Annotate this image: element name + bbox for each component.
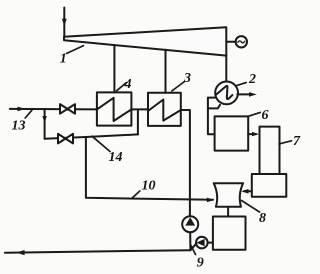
wire pump 9 jog xyxy=(190,244,196,251)
svg-text:2: 2 xyxy=(248,72,256,87)
leader label 13 xyxy=(25,110,32,118)
svg-text:4: 4 xyxy=(124,77,132,92)
wire heater 3 outlet down xyxy=(181,110,190,216)
wire basin to pump 9 xyxy=(208,242,213,244)
arrowhead base into tower xyxy=(241,189,248,194)
wire 6 to 7 xyxy=(248,133,256,135)
leader label 1 xyxy=(67,46,84,54)
arrowhead heater 2 outlet xyxy=(249,92,257,97)
wire bypass lower xyxy=(45,134,138,138)
wire pump P1 down xyxy=(189,232,191,250)
arrowhead line 10 into tower xyxy=(207,198,215,203)
svg-text:1: 1 xyxy=(60,52,67,67)
generator G xyxy=(236,36,247,47)
wire extraction to heater 3 xyxy=(165,50,167,93)
pump 9 triangle xyxy=(196,239,204,246)
pump P1 triangle xyxy=(185,217,195,225)
wire bottom return xyxy=(5,250,191,253)
arrowhead bottom return xyxy=(16,250,25,255)
box 6 xyxy=(215,116,249,150)
leader label 7 xyxy=(279,141,292,144)
svg-text:6: 6 xyxy=(262,108,269,123)
leader label 2 xyxy=(235,83,246,86)
wire feedwater inlet 13 xyxy=(10,108,97,111)
box 7 base xyxy=(252,174,286,197)
wire bypass riser xyxy=(137,109,139,134)
heater 3 zigzag xyxy=(148,100,181,121)
svg-text:3: 3 xyxy=(183,71,191,86)
svg-text:10: 10 xyxy=(142,179,156,194)
wire extraction to heater 4 xyxy=(113,45,115,92)
svg-text:13: 13 xyxy=(12,118,26,133)
arrowhead 6 to 7 xyxy=(252,132,259,136)
turbine T1 (wedge) xyxy=(64,27,226,55)
heater box 4 xyxy=(97,92,131,125)
arrowhead turbine inlet xyxy=(62,19,67,26)
wire tower to basin xyxy=(227,207,229,217)
wire turbine inlet xyxy=(63,8,65,38)
wire heater 2 outlet right xyxy=(237,93,252,95)
heater circle 2 xyxy=(215,82,238,105)
generator connection wire xyxy=(226,41,236,43)
heater 4 zigzag xyxy=(97,98,131,121)
leader label 9 xyxy=(191,246,196,255)
leader label 3 xyxy=(172,82,185,92)
leader label 14 xyxy=(92,136,110,151)
generator tilde xyxy=(238,41,245,43)
pump 9 circle xyxy=(196,237,208,249)
leader label 4 xyxy=(117,83,127,91)
leader label 8 xyxy=(242,201,260,213)
heater 2 zigzag xyxy=(216,86,232,99)
svg-text:14: 14 xyxy=(109,150,123,165)
valve V1 upper xyxy=(60,104,75,114)
wire turbine exhaust to heater 2 xyxy=(225,56,227,82)
leader label 6 xyxy=(249,112,261,116)
cooling tower 8 xyxy=(214,183,243,207)
arrowhead inlet 13 xyxy=(18,107,26,112)
svg-text:9: 9 xyxy=(197,256,204,271)
wire between heaters 4 and 3 xyxy=(131,108,148,110)
wire line 10 xyxy=(86,137,213,200)
wire heater 2 left hook xyxy=(208,98,215,135)
svg-text:7: 7 xyxy=(293,134,301,149)
wire branch down xyxy=(44,109,46,139)
box 7 tower xyxy=(260,127,280,174)
arrowhead branch down xyxy=(42,116,46,124)
heater box 3 xyxy=(148,93,181,126)
svg-text:8: 8 xyxy=(259,211,266,226)
pump P1 circle xyxy=(182,216,198,232)
valve V2 lower xyxy=(58,134,73,144)
wire base to cooling tower xyxy=(244,190,252,192)
leader label 10 xyxy=(132,191,140,199)
basin box xyxy=(213,217,246,250)
wire heater 2 bottom drain xyxy=(208,105,220,109)
